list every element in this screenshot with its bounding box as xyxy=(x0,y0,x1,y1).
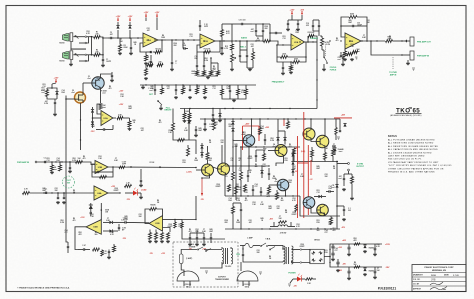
svg-text:end: end xyxy=(71,92,74,94)
svg-text:R18: R18 xyxy=(182,162,185,164)
ground under U5A ab xyxy=(149,240,151,241)
svg-text:560: 560 xyxy=(95,234,98,236)
resistor R97 right of U3B xyxy=(119,166,125,168)
capacitor C33 hang xyxy=(212,113,214,115)
resistor R37 xyxy=(196,88,199,94)
transistor Q9 blue mid xyxy=(277,179,289,191)
wire grid bus mid2 xyxy=(225,165,269,167)
footswitch dashed circle xyxy=(63,176,75,188)
wire Q7 emitter down xyxy=(202,175,210,178)
ground C27 xyxy=(111,79,113,80)
ground R3 xyxy=(119,52,121,53)
svg-text:end: end xyxy=(338,178,341,180)
svg-text:5X20MM: 5X20MM xyxy=(189,246,196,248)
op-amp U1A xyxy=(143,33,158,47)
ground output jacks xyxy=(407,62,409,63)
wire Q6 collector rail xyxy=(324,119,326,136)
wire Q3 base xyxy=(233,135,243,141)
ground R6 xyxy=(145,62,147,63)
wire bridge outputs xyxy=(324,244,345,257)
svg-text:ALL DIODES 1N4448 UNLESS NOTED: ALL DIODES 1N4448 UNLESS NOTED xyxy=(388,151,432,154)
transistor Q8 yellow vi limiter b xyxy=(218,163,230,175)
ground grid xyxy=(233,99,235,100)
transformer export core xyxy=(225,248,227,264)
capacitor C24 xyxy=(340,54,342,56)
wire limiter to Q7 xyxy=(188,126,190,140)
capacitor C7 shunt xyxy=(171,61,173,63)
ground C25 xyxy=(54,113,56,114)
svg-text:start: start xyxy=(102,92,106,95)
dashed link pot to switch xyxy=(325,42,327,56)
capacitor C36 mid xyxy=(255,154,257,156)
diode CR2 xyxy=(128,25,131,28)
red vertical long 2 xyxy=(303,112,305,218)
op-amp U4A xyxy=(94,186,108,200)
resistor R24 feedback 820K xyxy=(349,16,357,19)
feedback U3B xyxy=(92,164,113,177)
svg-text:2.2M: 2.2M xyxy=(235,186,239,188)
svg-text:470: 470 xyxy=(336,39,339,42)
ground right small xyxy=(337,137,340,139)
capacitor C70 at CR17 xyxy=(90,211,92,213)
svg-text:.0047: .0047 xyxy=(42,189,46,192)
op-amp U3A xyxy=(101,111,113,126)
transformer T1 secondary xyxy=(292,246,294,264)
svg-text:(+0.6V): (+0.6V) xyxy=(186,172,192,174)
power -15V U3 xyxy=(301,11,303,14)
capacitor C1 100PF xyxy=(102,58,104,60)
wire node A xyxy=(100,37,108,38)
svg-text:R650K: R650K xyxy=(150,205,156,207)
wire export top xyxy=(181,249,197,252)
svg-text:BASS: BASS xyxy=(241,36,247,39)
svg-text:TRANSFORMER: TRANSFORMER xyxy=(215,278,230,281)
wire q9 emitter xyxy=(285,191,287,197)
red vertical long 1 xyxy=(297,136,299,218)
wire led to rail xyxy=(313,278,317,280)
wire Q3 collector xyxy=(251,119,253,136)
inductor L1 output xyxy=(278,225,288,227)
resistor R11 xyxy=(196,71,199,76)
svg-text:2.2M: 2.2M xyxy=(241,92,245,94)
svg-text:2.2M: 2.2M xyxy=(236,200,240,202)
svg-text:+15V: +15V xyxy=(116,16,121,18)
svg-text:(AN AMERICAN MADE) (SOUND): (AN AMERICAN MADE) (SOUND) xyxy=(390,114,422,117)
resistor R87 dropper- xyxy=(354,266,360,268)
svg-text:.0047: .0047 xyxy=(209,230,213,233)
capacitor C39 xyxy=(328,190,330,192)
svg-text:R34: R34 xyxy=(61,91,64,94)
diode CR27 output xyxy=(335,184,338,187)
ground C28 xyxy=(96,129,98,131)
svg-text:2-7-85: 2-7-85 xyxy=(453,275,460,277)
capacitor trio C53 xyxy=(196,236,198,238)
svg-text:PRE AMP OUT: PRE AMP OUT xyxy=(417,41,432,44)
ground main filters xyxy=(332,258,334,259)
capacitor C72 series xyxy=(124,221,126,223)
svg-text:.047: .047 xyxy=(140,129,143,132)
wire limiter links xyxy=(173,131,189,140)
switch bright xyxy=(157,100,158,101)
resistor R92 under U5A c xyxy=(161,233,164,240)
svg-text:FORCE: FORCE xyxy=(330,69,337,71)
ground bright switch xyxy=(160,107,162,108)
connector pwr amp in jack xyxy=(410,51,414,60)
switch FOCUS contact xyxy=(323,56,324,57)
resistor R6 to ground xyxy=(145,55,148,61)
resistor R77 1.2K xyxy=(125,185,132,188)
svg-text:C27: C27 xyxy=(230,160,233,162)
wire to power amp sense xyxy=(182,196,196,220)
svg-text:.0047: .0047 xyxy=(128,107,132,110)
resistor R56 ladder a xyxy=(232,172,235,180)
transformer export secondary xyxy=(231,248,233,264)
svg-text:R18: R18 xyxy=(324,252,327,254)
svg-text:560: 560 xyxy=(354,264,357,266)
capacitor C30 xyxy=(175,88,177,90)
svg-text:2.2M: 2.2M xyxy=(44,103,48,105)
wire lower links xyxy=(233,202,241,204)
svg-text:C12: C12 xyxy=(42,86,45,88)
potentiometer treble pot xyxy=(321,38,324,46)
ground export xyxy=(205,271,208,273)
ground zobel b xyxy=(351,197,353,198)
switch export a xyxy=(197,249,198,250)
wire T1 primary leads xyxy=(282,246,284,250)
svg-text:R22 22K: R22 22K xyxy=(308,32,315,34)
svg-text:R66 C58 CR20 Q11 U5: R66 C58 CR20 Q11 U5 F1 P1 xyxy=(388,159,422,161)
svg-text:DRAWN BY: DRAWN BY xyxy=(413,274,424,277)
resistor R53 mid xyxy=(263,154,266,161)
svg-text:R5 1M: R5 1M xyxy=(156,49,162,51)
svg-text:C12: C12 xyxy=(282,38,285,40)
svg-text:R34: R34 xyxy=(260,127,263,130)
resistor R58 ladder c xyxy=(228,185,231,192)
ground at Q4 xyxy=(263,149,266,151)
feedback network U2 xyxy=(197,41,220,52)
ground C34 xyxy=(204,128,206,129)
resistor R57 ladder b xyxy=(240,172,243,180)
wire U4A out xyxy=(108,192,120,194)
diode CR19b to U4B input b xyxy=(109,229,112,232)
svg-text:R18: R18 xyxy=(284,160,287,162)
diode CR17 big xyxy=(89,205,93,209)
resistor R62 lower hang xyxy=(268,187,271,194)
resistor R15 4.7K xyxy=(231,44,234,50)
svg-text:TREBLE: TREBLE xyxy=(310,38,319,40)
resistor R64 lower xyxy=(232,207,235,214)
capacitor C69 over U2 xyxy=(199,24,201,26)
ground ladder grounds xyxy=(175,96,177,97)
ground jack2 xyxy=(412,68,415,70)
capacitor C34 rail xyxy=(204,122,206,124)
resistor R43 vertical xyxy=(128,121,131,127)
svg-text:C10 .033: C10 .033 xyxy=(239,20,246,22)
op-amp U3B xyxy=(95,161,108,174)
red wire mark 2 xyxy=(243,125,260,127)
svg-text:60HZ): 60HZ) xyxy=(245,286,250,288)
svg-text:NOTES: NOTES xyxy=(388,136,397,138)
svg-text:50PF: 50PF xyxy=(204,26,208,28)
ground C22 xyxy=(342,63,344,64)
resistor R79 fb xyxy=(150,208,157,211)
resistor R55 xyxy=(187,148,190,156)
resistor R36 xyxy=(182,88,185,94)
wire pwr amp input xyxy=(37,162,95,165)
wire down to pwr amp in jack xyxy=(371,41,401,55)
capacitor C2 .047 xyxy=(109,37,111,39)
diode CR10 chain a xyxy=(200,145,203,148)
capacitor C42 input xyxy=(43,161,45,163)
svg-text:+15V: +15V xyxy=(128,16,133,18)
wire grid verticals b xyxy=(232,139,234,166)
transistor Q3 blue xyxy=(243,135,255,147)
svg-text:RGB: RGB xyxy=(431,275,436,277)
wire Q9 base xyxy=(269,184,277,186)
svg-text:.0047: .0047 xyxy=(316,167,320,170)
capacitor C22 xyxy=(342,56,344,58)
wire U5B inputs right xyxy=(163,219,176,221)
wire grid bottom xyxy=(222,95,246,99)
svg-text:end: end xyxy=(250,31,253,33)
resistor R54 above Q7 xyxy=(206,153,209,160)
ground CR23 xyxy=(364,273,366,274)
capacitor C15 xyxy=(274,32,276,34)
dome export plug xyxy=(177,271,199,281)
capacitor C55 xyxy=(210,236,212,238)
resistor R69 xyxy=(59,165,62,171)
svg-text:P.N.8100121: P.N.8100121 xyxy=(378,287,396,291)
ground U4 bias xyxy=(344,58,346,59)
ground R68 xyxy=(51,171,53,172)
svg-text:100PF: 100PF xyxy=(106,61,111,63)
svg-text:C12: C12 xyxy=(46,160,49,162)
junction dots power low xyxy=(232,195,233,196)
wire U4B top feedback xyxy=(100,203,102,220)
svg-text:2 AMP: 2 AMP xyxy=(247,237,253,240)
svg-text:(0.6V): (0.6V) xyxy=(301,151,306,153)
wire treble cap pair xyxy=(313,19,319,21)
wire top to +15 xyxy=(51,84,53,88)
resistor R8 10K xyxy=(147,64,153,67)
resistor R20 450K xyxy=(293,61,300,64)
diode CR9 xyxy=(276,137,279,140)
svg-text:JRB: JRB xyxy=(431,278,436,281)
svg-text:R10 27K: R10 27K xyxy=(204,49,211,51)
svg-text:end: end xyxy=(41,90,44,92)
wire C74 tap xyxy=(337,205,344,207)
capacitor C14 .047 xyxy=(262,29,264,31)
svg-text:.047: .047 xyxy=(262,165,265,168)
diode CR1 xyxy=(116,25,119,28)
capacitor C28 bottom xyxy=(102,128,104,130)
svg-text:POWER: POWER xyxy=(288,273,296,275)
capacitor C29 xyxy=(154,88,156,90)
wire U3B out xyxy=(108,166,196,169)
ground C64 xyxy=(195,134,197,135)
capacitor C11 xyxy=(239,54,241,56)
dashed export transformer box xyxy=(173,242,238,287)
transistor Q11 yellow lower xyxy=(317,204,329,216)
resistor R38b hang xyxy=(188,113,191,119)
resistor R68 1M xyxy=(51,165,54,171)
emitter resistor R51 xyxy=(324,153,327,160)
capacitor C4 feedback xyxy=(150,50,152,52)
capacitor trio C52 xyxy=(189,236,191,238)
svg-text:OUTPUT: OUTPUT xyxy=(356,166,365,168)
resistor R42 6.8K xyxy=(117,117,123,120)
svg-text:.047: .047 xyxy=(146,29,149,32)
wire speaker feed vertical xyxy=(336,162,338,230)
capacitor C12 xyxy=(246,54,248,56)
LED CR19 red xyxy=(133,191,138,196)
capacitor C67 right xyxy=(339,129,341,131)
resistor R46 rail xyxy=(213,122,216,130)
capacitor C35 xyxy=(264,138,266,140)
svg-text:ALL RESISTORS 1/4W UNLESS NOTE: ALL RESISTORS 1/4W UNLESS NOTED xyxy=(388,142,434,145)
svg-text:2.2M: 2.2M xyxy=(326,44,330,46)
resistor R31 650K xyxy=(46,90,49,97)
resistor R47 xyxy=(259,128,262,135)
red vertical heavy right xyxy=(310,160,312,175)
ground fb chain xyxy=(108,256,110,257)
svg-text:.1: .1 xyxy=(175,63,176,65)
resistor R7 1M bias xyxy=(145,69,148,76)
red rail segment right xyxy=(334,117,352,119)
svg-text:.0047: .0047 xyxy=(268,207,272,210)
diode CR14 mid chain b xyxy=(291,161,294,164)
diode CR6 hang xyxy=(218,113,221,116)
svg-text:R34: R34 xyxy=(228,199,231,202)
ground LED power xyxy=(288,284,291,286)
resistor R61 xyxy=(295,205,297,212)
wire U3 feedback xyxy=(277,45,281,57)
diode CR15 mid chain c xyxy=(291,169,294,172)
resistor R93 under U5A d xyxy=(167,233,170,240)
ground C60 xyxy=(348,253,350,254)
svg-text:.0047: .0047 xyxy=(234,145,238,148)
ground C46 pair xyxy=(57,201,59,202)
capacitor C38 xyxy=(247,174,249,176)
svg-text:470: 470 xyxy=(289,145,292,148)
wire R31/CR3 parallel xyxy=(47,88,57,89)
svg-text:2.2M: 2.2M xyxy=(72,160,76,162)
title block xyxy=(412,265,466,292)
wire U3 output xyxy=(305,41,318,43)
ground C68 aux xyxy=(221,52,223,53)
capacitor trio C54 xyxy=(203,236,205,238)
svg-text:C.47: C.47 xyxy=(82,244,86,247)
wire Q8 collector up xyxy=(221,145,223,163)
capacitor C5 below xyxy=(150,60,152,62)
capacitor C68 aux xyxy=(221,46,223,48)
bridge rectifier CR20 xyxy=(310,249,324,263)
wire grid verticals c xyxy=(248,147,250,170)
junction dots power rail xyxy=(304,118,305,119)
transistor Q7 yellow vi limiter a xyxy=(202,164,214,176)
ground tone ladder xyxy=(207,76,209,77)
svg-text:R34: R34 xyxy=(194,57,197,60)
svg-text:220PF: 220PF xyxy=(248,158,253,160)
svg-text:470: 470 xyxy=(83,157,86,160)
capacitor C49 xyxy=(67,245,69,247)
connector pre amp out jack xyxy=(410,37,414,46)
diode CR5 limiter xyxy=(91,121,94,124)
diode CR12 xyxy=(260,170,263,173)
svg-text:220PF: 220PF xyxy=(292,214,297,216)
wire tone stack left riser xyxy=(231,24,233,41)
capacitor C37 xyxy=(268,172,270,174)
svg-text:C.K. CK.: C.K. CK. xyxy=(413,279,421,281)
diode CR4 limiter xyxy=(91,109,94,112)
wire to U3 minus xyxy=(271,41,292,45)
svg-text:start: start xyxy=(102,106,106,109)
svg-text:C12: C12 xyxy=(242,134,245,136)
capacitor C58 main filter b xyxy=(331,252,334,254)
emitter resistor R50 xyxy=(311,150,314,157)
wire U1 out xyxy=(158,39,166,41)
resistor ladder right of switch xyxy=(204,88,207,94)
svg-text:.0047: .0047 xyxy=(124,217,128,220)
resistor R5 feedback xyxy=(155,51,161,54)
wire driver bias xyxy=(256,150,264,154)
svg-text:2.2M: 2.2M xyxy=(270,140,274,142)
capacitor C19 xyxy=(312,24,314,26)
capacitor C63 xyxy=(374,270,377,272)
connector J1 high input jack xyxy=(63,34,70,42)
svg-text:2.2M: 2.2M xyxy=(204,60,208,62)
junction dots left column xyxy=(55,161,56,162)
resistor R96 aux column xyxy=(221,30,224,37)
wire aux link xyxy=(222,23,232,25)
transistor Q1 npn blue xyxy=(92,77,104,89)
diode CR22 zener+ xyxy=(363,245,366,248)
emitter resistor R52 xyxy=(332,149,335,156)
svg-text:C12: C12 xyxy=(328,224,331,226)
capacitor C66 grid xyxy=(260,190,262,192)
svg-text:MERIDIAN, MS: MERIDIAN, MS xyxy=(432,269,447,272)
svg-text:end: end xyxy=(209,126,212,128)
capacitor C3 xyxy=(130,46,132,48)
resistor R38a hang xyxy=(183,113,186,119)
resistor R14 xyxy=(217,71,220,76)
svg-text:1.0M: 1.0M xyxy=(182,45,186,47)
wire jack link down xyxy=(392,57,394,69)
capacitor C51 xyxy=(108,250,110,252)
ground hang pair xyxy=(212,119,214,120)
capacitor C16 xyxy=(282,66,284,68)
resistor R26 below U4 xyxy=(344,51,347,57)
transistor Q4 yellow driver xyxy=(275,145,287,157)
resistor R66 zobel xyxy=(351,177,354,184)
wire ladder risers xyxy=(232,180,234,196)
red wire mark 3 xyxy=(258,126,260,141)
wire T1 secondary to bridge xyxy=(292,249,301,251)
svg-text:470: 470 xyxy=(225,175,228,178)
wire R23 link xyxy=(343,53,347,55)
svg-text:C27: C27 xyxy=(254,186,257,188)
diode CR7 xyxy=(231,121,234,124)
svg-text:560: 560 xyxy=(281,200,284,202)
resistor R70 10K xyxy=(76,161,83,164)
dome line plug xyxy=(237,271,258,281)
resistor R19 82K xyxy=(281,56,288,59)
svg-text:-15V: -15V xyxy=(385,267,390,269)
red vertical long 3 xyxy=(307,145,309,215)
wire bass pot bottom xyxy=(231,62,233,68)
resistor R81 in2 xyxy=(181,222,183,228)
title block rows xyxy=(412,272,466,274)
